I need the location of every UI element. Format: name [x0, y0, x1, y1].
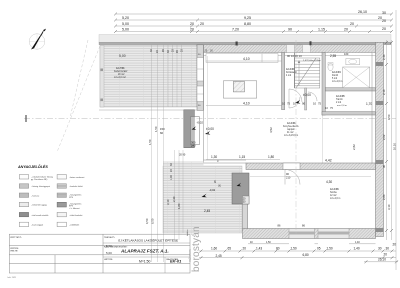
- svg-text:9,25: 9,25: [244, 16, 251, 20]
- svg-text:-0,02: -0,02: [197, 121, 204, 125]
- svg-text:5,00: 5,00: [119, 54, 126, 58]
- wc partition vertical: [305, 88, 307, 110]
- top wall inner face line: [204, 54, 378, 56]
- svg-text:borostyán: borostyán: [191, 226, 202, 272]
- svg-text:ÚJ KÉTLAKÁSOS LAKÓÉPÜLET ÉPÍTÉ: ÚJ KÉTLAKÁSOS LAKÓÉPÜLET ÉPÍTÉSE: [118, 237, 178, 242]
- svg-text:20: 20: [382, 19, 386, 23]
- chimney dark block: [232, 173, 249, 204]
- svg-text:30: 30: [382, 164, 386, 168]
- svg-text:- tömörített agyag: - tömörített agyag: [31, 204, 47, 207]
- legend col1 row6: [19, 222, 43, 226]
- svg-text:4,10: 4,10: [243, 102, 250, 106]
- title block frame: [9, 234, 190, 273]
- svg-text:210: 210: [286, 176, 291, 180]
- svg-text:1,50: 1,50: [327, 246, 333, 250]
- svg-text:1,00: 1,00: [170, 175, 173, 180]
- storage room: [325, 95, 372, 110]
- svg-text:6,50: 6,50: [145, 218, 149, 224]
- svg-text:3,10: 3,10: [387, 204, 391, 210]
- svg-text:2,45: 2,45: [204, 209, 210, 213]
- svg-text:20: 20: [200, 22, 204, 26]
- svg-text:m=+0,0 m2: m=+0,0 m2: [114, 77, 126, 79]
- slope arrow living: [205, 131, 210, 135]
- svg-text:1,60: 1,60: [211, 246, 217, 250]
- svg-text:4,10: 4,10: [243, 57, 250, 61]
- dim row under living: [206, 159, 280, 161]
- svg-text:1,5/7,5 H=+2,05m: 1,5/7,5 H=+2,05m: [303, 60, 321, 62]
- svg-text:Konyha-étkező-: Konyha-étkező-: [283, 125, 299, 128]
- svg-text:nappali: nappali: [287, 129, 295, 131]
- vent flag on top wall: [310, 41, 312, 45]
- svg-text:4,42: 4,42: [325, 159, 332, 163]
- svg-text:2,80: 2,80: [382, 194, 386, 200]
- svg-text:A.1.F.06: A.1.F.06: [330, 188, 339, 191]
- right dim chains: [387, 10, 397, 270]
- svg-text:2,45: 2,45: [216, 254, 222, 258]
- svg-text:építész: építész: [186, 230, 189, 236]
- svg-text:1,50: 1,50: [148, 139, 152, 145]
- svg-text:gy. Porotherm NF): gy. Porotherm NF): [31, 178, 48, 181]
- svg-text:2,55: 2,55: [330, 54, 336, 58]
- svg-text:Tároló: Tároló: [336, 98, 343, 101]
- svg-text:10: 10: [282, 102, 286, 106]
- svg-text:7,20: 7,20: [232, 28, 239, 32]
- svg-text:2,40: 2,40: [172, 196, 176, 202]
- bedroom top wall: [246, 163, 376, 170]
- svg-text:6,50: 6,50: [387, 114, 391, 120]
- stairs: [295, 58, 320, 88]
- legend col2 row4: [57, 202, 81, 210]
- legend col2 row1: [57, 175, 85, 179]
- kitchen island: [223, 81, 256, 98]
- svg-text:12 m2: 12 m2: [330, 195, 337, 197]
- interior window dim row top: [206, 61, 282, 106]
- svg-text:A.1.F.01: A.1.F.01: [287, 122, 296, 125]
- right wall inner line: [371, 53, 373, 163]
- svg-text:41 m2: 41 m2: [287, 132, 294, 134]
- bench along north wall: [206, 54, 278, 63]
- svg-text:90: 90: [288, 28, 292, 32]
- svg-text:Fedett terasz: Fedett terasz: [114, 70, 128, 73]
- boundary leader lines: [57, 40, 100, 152]
- top wall window gaps: [287, 45, 295, 53]
- svg-text:4,30: 4,30: [326, 180, 332, 184]
- bedroom inner dim line: [250, 176, 371, 178]
- svg-text:Szoba: Szoba: [330, 192, 337, 194]
- center axis dashed: [295, 40, 297, 235]
- svg-text:20: 20: [393, 242, 397, 246]
- svg-text:M=1:50: M=1:50: [139, 259, 151, 263]
- svg-text:Közlekedő: Közlekedő: [286, 72, 297, 74]
- svg-text:5,00: 5,00: [106, 244, 112, 248]
- terrace slope arrow: [202, 194, 207, 198]
- central partition wall: [282, 53, 285, 110]
- svg-text:1,15: 1,15: [318, 28, 325, 32]
- svg-text:20: 20: [384, 252, 388, 256]
- top terrace deck: [100, 46, 197, 108]
- svg-text:75: 75: [287, 102, 291, 106]
- svg-text:1,50: 1,50: [266, 241, 271, 244]
- stair side wall: [294, 53, 296, 88]
- svg-text:1,40: 1,40: [354, 246, 360, 250]
- svg-text:ANYAGJELÖLÉS: ANYAGJELÖLÉS: [17, 164, 48, 169]
- svg-text:240: 240: [191, 144, 196, 148]
- entry porch dark block: [179, 110, 203, 157]
- bedroom label: [326, 180, 340, 200]
- living inner dim chain: [207, 56, 209, 160]
- svg-text:- zöldfelület: - zöldfelület: [69, 224, 80, 227]
- tick marks top chain: [114, 13, 393, 34]
- left vertical dim chains: [152, 44, 184, 262]
- svg-text:A.1.F.05: A.1.F.05: [336, 95, 345, 98]
- svg-text:20: 20: [382, 27, 386, 31]
- bathroom: [328, 52, 370, 88]
- svg-text:XPS: XPS: [69, 197, 74, 199]
- svg-text:1,43: 1,43: [256, 246, 262, 250]
- svg-text:- hőszig. kőzetgyapot: - hőszig. kőzetgyapot: [31, 185, 50, 188]
- svg-text:90: 90: [302, 102, 306, 106]
- living room outline: [204, 45, 247, 163]
- svg-text:20 90: 20 90: [179, 154, 186, 157]
- corridor line to bath block: [322, 115, 324, 163]
- svg-text:26,10: 26,10: [358, 10, 367, 14]
- svg-text:1,50: 1,50: [291, 246, 297, 250]
- svg-text:6,50: 6,50: [151, 218, 155, 224]
- bottom row tick marks: [200, 250, 399, 264]
- svg-text:ÉPÍTTETŐ:: ÉPÍTTETŐ:: [11, 236, 23, 239]
- svg-text:A.1.F.03: A.1.F.03: [286, 68, 295, 71]
- wc partition walls: [322, 53, 376, 115]
- title block texts: [8, 236, 183, 279]
- svg-text:20: 20: [350, 22, 354, 26]
- north arrow: [29, 29, 46, 50]
- svg-text:1,15: 1,15: [239, 155, 245, 159]
- legend col2 row3: [57, 193, 81, 199]
- svg-text:05: 05: [317, 246, 321, 250]
- legend col2 row5: [57, 212, 83, 216]
- hall label: [286, 54, 321, 77]
- svg-text:LÉPTÉK:: LÉPTÉK:: [104, 258, 113, 261]
- bedroom bottom wall: [243, 224, 376, 239]
- svg-text:1,80: 1,80: [268, 155, 274, 159]
- svg-text:m=+2,6 m: m=+2,6 m: [332, 81, 342, 83]
- bottom dim rows: [199, 244, 398, 262]
- hall lower dim texts: [282, 102, 322, 106]
- svg-text:20 m2: 20 m2: [118, 74, 125, 76]
- svg-text:65: 65: [228, 246, 232, 250]
- svg-text:5,00: 5,00: [122, 22, 129, 26]
- svg-text:2,82: 2,82: [352, 144, 356, 150]
- svg-text:5 m2: 5 m2: [332, 78, 338, 80]
- svg-text:1,50: 1,50: [154, 126, 158, 132]
- top dimension chain rows: [115, 14, 392, 32]
- svg-text:5,20: 5,20: [122, 16, 129, 20]
- legend col1 row4: [19, 202, 46, 206]
- legend col1 row2: [19, 184, 50, 188]
- svg-text:160: 160: [344, 52, 349, 56]
- svg-text:- humusz: - humusz: [31, 195, 39, 197]
- svg-text:- burkolat külső: - burkolat külső: [69, 185, 83, 188]
- svg-text:4,52: 4,52: [269, 127, 273, 133]
- bedroom door dim: [286, 172, 291, 180]
- svg-text:30: 30: [382, 11, 386, 15]
- svg-text:20: 20: [344, 28, 348, 32]
- svg-text:m=+2,6 m: m=+2,6 m: [330, 198, 340, 200]
- svg-text:5,00: 5,00: [122, 28, 129, 32]
- bedroom left wall lower: [243, 203, 248, 231]
- svg-text:Fürdő: Fürdő: [332, 74, 339, 77]
- svg-text:3,10: 3,10: [166, 199, 170, 205]
- svg-text:4 m2: 4 m2: [286, 75, 292, 77]
- svg-text:2 m2: 2 m2: [336, 102, 342, 104]
- svg-text:ALAPRAJZ FSZT. A.1.: ALAPRAJZ FSZT. A.1.: [120, 248, 169, 253]
- living room label: [283, 122, 299, 137]
- bottom terrace deck: [163, 166, 242, 233]
- svg-text:2,40: 2,40: [382, 54, 386, 60]
- terrace bottom edge line: [99, 109, 197, 111]
- legend col2 row6: [57, 222, 80, 226]
- legend col2 row2: [57, 184, 83, 188]
- eaves overhang band: [99, 35, 391, 43]
- svg-text:2,10: 2,10: [382, 89, 386, 95]
- svg-text:1,80: 1,80: [177, 203, 181, 209]
- svg-text:TERVEZŐ:: TERVEZŐ:: [104, 236, 115, 239]
- svg-text:6,80: 6,80: [303, 253, 309, 257]
- svg-text:8,80: 8,80: [244, 22, 251, 26]
- svg-text:±0,00: ±0,00: [303, 93, 311, 97]
- svg-text:20: 20: [243, 246, 247, 250]
- svg-text:A.1.F.04: A.1.F.04: [332, 71, 341, 74]
- legend col1 row5: [19, 212, 48, 216]
- svg-text:- kavicságyak: - kavicságyak: [31, 225, 43, 227]
- right wall junction blocks: [376, 62, 384, 232]
- svg-text:kelt: 2021: kelt: 2021: [8, 276, 18, 279]
- left chain texts: [145, 49, 184, 224]
- svg-text:75: 75: [318, 102, 322, 106]
- svg-text:1,70: 1,70: [366, 102, 372, 106]
- section flag on top wall: [236, 42, 238, 46]
- svg-text:- térkő burkolat: - térkő burkolat: [69, 214, 83, 217]
- svg-text:- beton szerkezet: - beton szerkezet: [69, 176, 85, 179]
- section line A-A: [24, 115, 396, 122]
- hall door arcs: [289, 89, 317, 108]
- svg-text:30: 30: [378, 246, 382, 250]
- right exterior wall: [376, 42, 384, 236]
- terrace posts: [100, 69, 103, 72]
- top dimension texts: [122, 10, 386, 32]
- bottom terrace texts: [204, 180, 222, 213]
- level mark living: [206, 127, 214, 131]
- svg-text:- tört bazalt zúzalék: - tört bazalt zúzalék: [31, 214, 48, 217]
- svg-text:-0,02: -0,02: [209, 188, 216, 192]
- top exterior wall band: [197, 45, 384, 53]
- bedroom door arc: [285, 170, 300, 185]
- svg-text:EK-01: EK-01: [170, 259, 182, 264]
- svg-text:±0,00: ±0,00: [206, 127, 214, 131]
- svg-text:30: 30: [386, 246, 390, 250]
- left exterior wall upper: [197, 45, 204, 111]
- wall top edge line: [99, 42, 391, 45]
- right chain ticks: [385, 41, 393, 232]
- svg-text:HELYE:: HELYE:: [11, 251, 19, 253]
- svg-text:műterem: műterem: [188, 249, 192, 262]
- svg-text:1,40: 1,40: [355, 241, 360, 244]
- svg-text:10,10: 10,10: [393, 143, 397, 150]
- svg-text:10: 10: [313, 102, 317, 106]
- svg-text:+ h. lábazat: + h. lábazat: [69, 207, 80, 210]
- legend col1 row3: [19, 193, 39, 197]
- svg-text:26,10: 26,10: [378, 257, 386, 261]
- svg-text:60: 60: [160, 131, 164, 135]
- terrace label: [114, 54, 128, 79]
- svg-text:1,30: 1,30: [211, 155, 217, 159]
- legend col1 row1: [19, 175, 53, 181]
- svg-text:m=+2,6 m: m=+2,6 m: [337, 105, 347, 107]
- svg-text:A.1.T.01: A.1.T.01: [116, 67, 125, 70]
- svg-text:2,62: 2,62: [382, 134, 386, 140]
- svg-text:5,00: 5,00: [106, 251, 112, 255]
- svg-text:80: 80: [276, 246, 280, 250]
